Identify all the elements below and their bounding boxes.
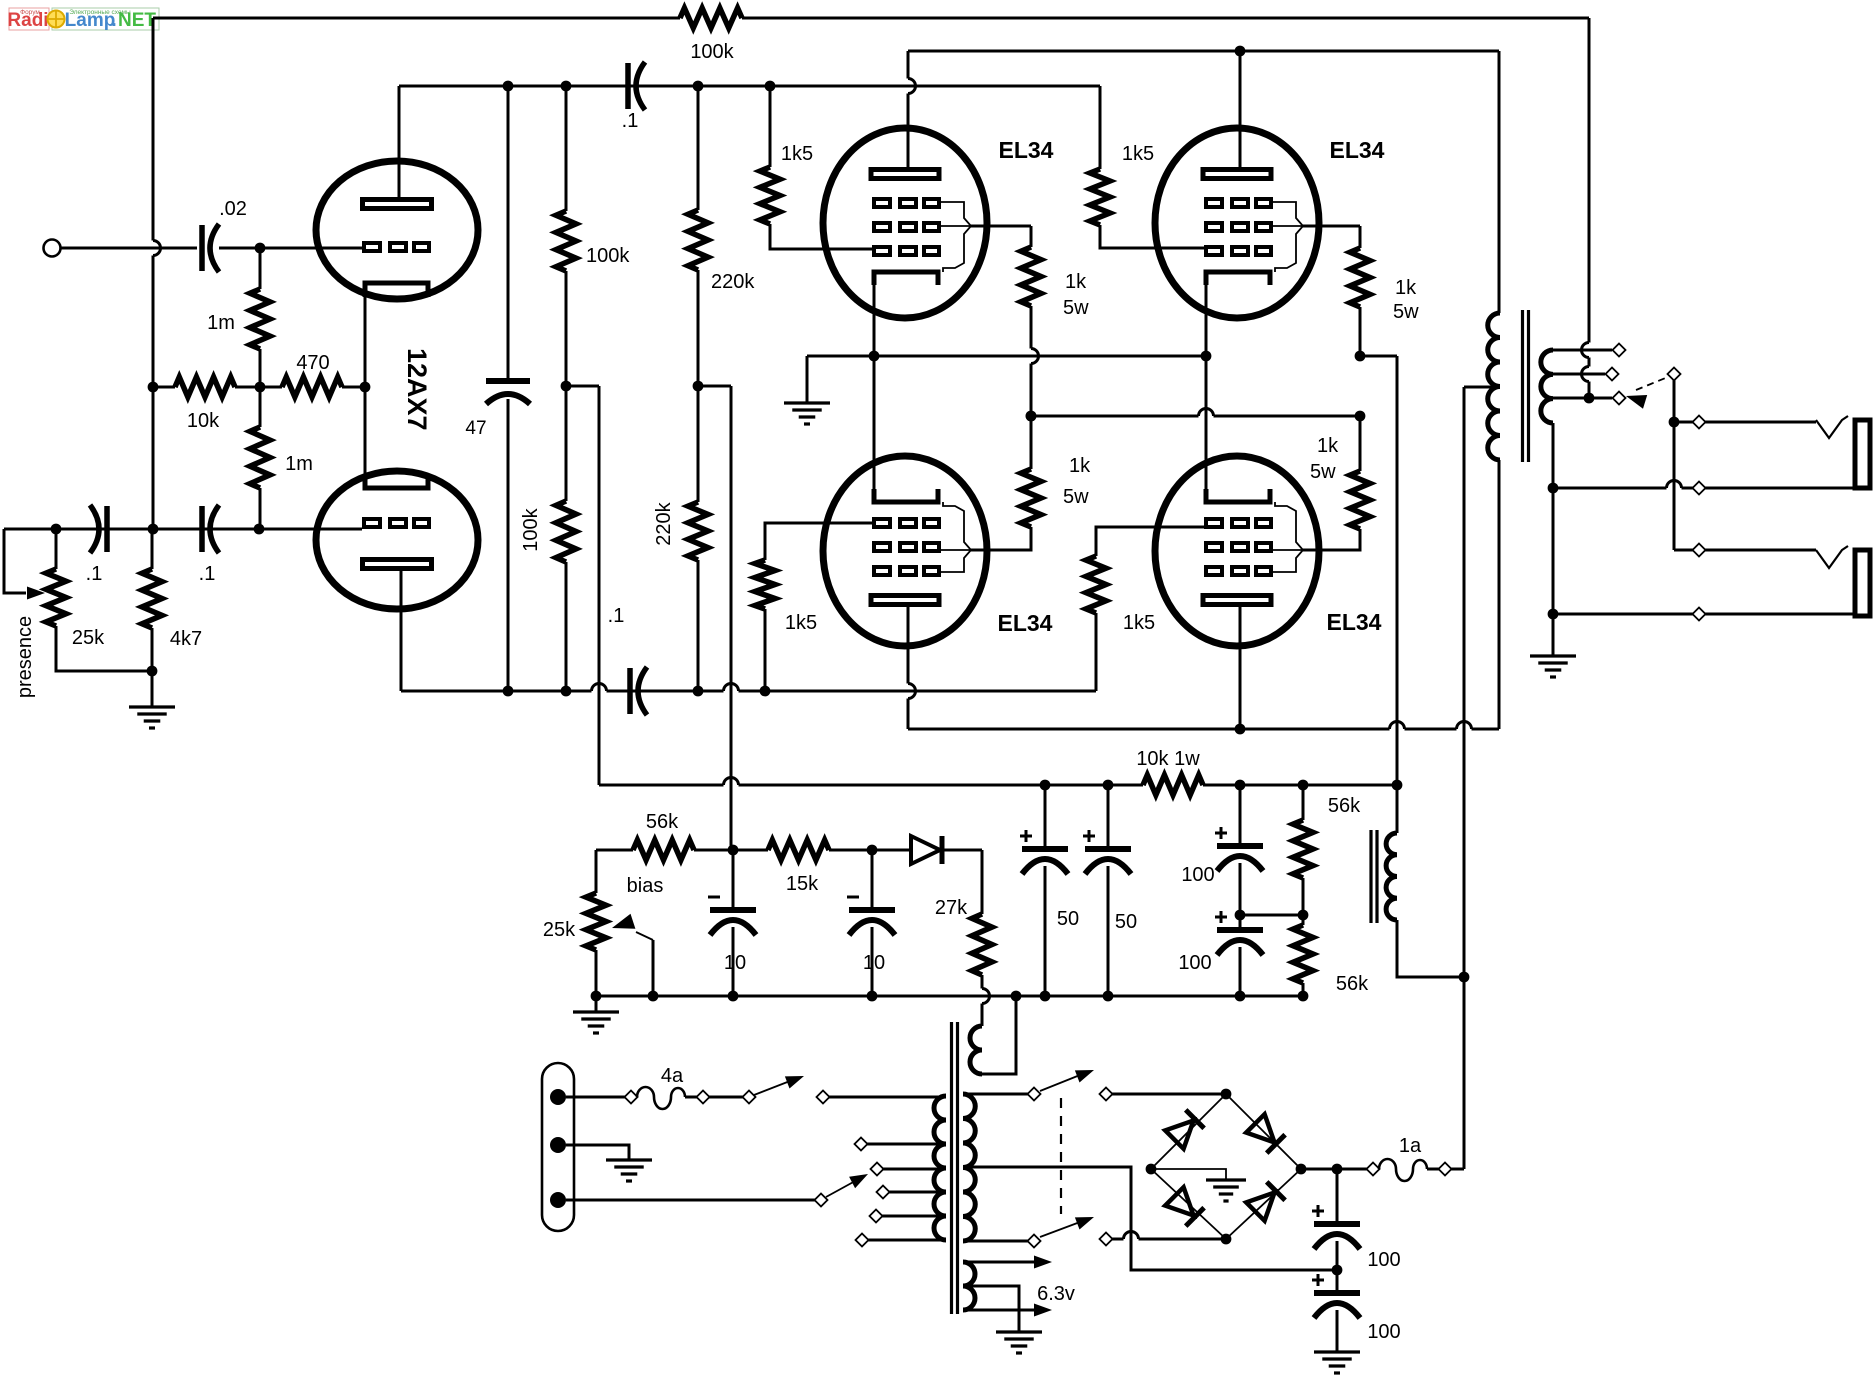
svg-text:27k: 27k xyxy=(935,897,968,919)
svg-text:10k 1w: 10k 1w xyxy=(1136,748,1200,770)
choke core xyxy=(1371,830,1377,923)
svg-text:EL34: EL34 xyxy=(999,137,1054,163)
svg-text:100k: 100k xyxy=(520,507,542,551)
wire OT center tap xyxy=(1464,386,1500,389)
12AX7 upper plate xyxy=(363,89,432,209)
speaker jack J2 xyxy=(1816,546,1870,616)
svg-text:Radi: Radi xyxy=(7,10,48,31)
wire OT tap3 xyxy=(1553,392,1626,405)
wire V1 plate to B+ rail xyxy=(908,51,916,170)
switch mains xyxy=(709,1076,946,1104)
fuse 1a xyxy=(1379,1135,1464,1181)
resistor 4k7 xyxy=(142,529,202,676)
wire V1 cathode to gnd rail xyxy=(869,285,880,490)
capacitor 47 xyxy=(465,86,530,691)
wire PI lower line y=691 xyxy=(401,684,1096,697)
bridge rectifier frame xyxy=(1146,1089,1307,1245)
12AX7 lower grid xyxy=(364,519,429,527)
wire bias winding bottom xyxy=(982,996,1016,1074)
fuse 4a xyxy=(637,1065,710,1109)
resistor 100k upper xyxy=(556,86,630,391)
resistor 56k lower xyxy=(1293,915,1369,996)
resistor 1k 5w V3 xyxy=(971,411,1091,550)
tube EL34 V2 xyxy=(1155,128,1319,318)
wire mains neutral xyxy=(566,1174,868,1207)
svg-text:50: 50 xyxy=(1115,911,1137,933)
resistor 100k lower (rotated label) xyxy=(520,386,576,691)
wire supply rail y=785 xyxy=(599,778,1143,791)
resistor 15k xyxy=(733,840,877,895)
wire B+ rail y=51 xyxy=(908,46,1499,57)
ground mains earth xyxy=(606,1160,652,1181)
wire HV center tap xyxy=(963,1167,1337,1270)
wire V4 plate down xyxy=(1239,604,1242,729)
wire bias gnd line y=996 xyxy=(596,991,1308,1002)
transformer PT bias winding xyxy=(970,1026,982,1074)
svg-text:100: 100 xyxy=(1181,864,1214,886)
speaker selector arrow xyxy=(1626,368,1681,409)
svg-text:4a: 4a xyxy=(661,1065,684,1087)
transformer OT core xyxy=(1523,310,1529,462)
choke winding xyxy=(1386,785,1462,977)
svg-text:100k: 100k xyxy=(586,245,630,267)
12AX7 upper grid xyxy=(364,243,429,251)
wire top NFB rail y=18 xyxy=(153,17,1589,20)
svg-text:6.3v: 6.3v xyxy=(1037,1283,1075,1305)
ground OT secondary xyxy=(1530,656,1576,677)
wire mains hot xyxy=(566,1091,638,1104)
speaker jack J1 xyxy=(1816,416,1870,488)
svg-text:5w: 5w xyxy=(1063,486,1089,508)
svg-text:47: 47 xyxy=(465,418,486,439)
wire 100/56k link xyxy=(1240,910,1308,921)
wire screen node to choke drop xyxy=(1360,355,1397,358)
svg-text:220k: 220k xyxy=(653,501,675,545)
transformer PT heater winding xyxy=(963,1262,975,1310)
svg-text:1k5: 1k5 xyxy=(1123,612,1155,634)
PT primary taps xyxy=(855,1138,947,1247)
wire cathode ground rail y=356 xyxy=(807,351,1211,362)
resistor 220k lower (rotated label) xyxy=(653,386,708,691)
svg-text:1k5: 1k5 xyxy=(785,612,817,634)
resistor 1k5 EL34-4 xyxy=(1086,527,1204,691)
wire OT tap1 xyxy=(1553,344,1626,357)
wire B+ main drop x=1464 xyxy=(1459,387,1470,1169)
bridge diode D2 xyxy=(1246,1114,1285,1153)
svg-text:NET: NET xyxy=(118,10,156,31)
svg-text:56k: 56k xyxy=(646,811,679,833)
resistor 1k 5w V2 xyxy=(1350,226,1419,361)
resistor 1k 5w V1 xyxy=(1021,226,1089,421)
wire jack2 sleeve xyxy=(1553,608,1855,621)
capacitor .1 presence xyxy=(86,505,107,585)
capacitor 10uF B xyxy=(847,850,895,996)
RadioLamp.NET logo xyxy=(7,8,159,31)
bridge internal ground xyxy=(1151,1169,1246,1201)
svg-text:1k: 1k xyxy=(1069,455,1091,477)
resistor 1k5 EL34-3 xyxy=(755,523,872,691)
svg-text:1k: 1k xyxy=(1317,435,1339,457)
potentiometer 25k bias xyxy=(543,850,663,996)
resistor 1k5 EL34-1 xyxy=(760,86,872,249)
svg-text:.02: .02 xyxy=(219,198,247,220)
resistor 56k upper xyxy=(1293,785,1361,915)
wire V3 plate down xyxy=(908,604,916,729)
wire bridge out xyxy=(1301,1163,1380,1176)
wire bias rail y=850 xyxy=(596,849,633,852)
wire OT tap2 xyxy=(1553,368,1619,381)
svg-text:1k: 1k xyxy=(1065,271,1087,293)
ground presence xyxy=(129,671,175,728)
svg-text:Lamp: Lamp xyxy=(65,10,116,31)
resistor 220k upper xyxy=(688,86,755,391)
transformer PT HV secondary xyxy=(963,1094,975,1241)
svg-text:bias: bias xyxy=(627,875,664,897)
capacitor 100uF D xyxy=(1312,1270,1401,1352)
wire V1 screen to R xyxy=(971,225,1031,228)
label EL34 V1 xyxy=(999,137,1054,163)
svg-text:.1: .1 xyxy=(86,563,103,585)
bridge diode D1 xyxy=(1165,1110,1204,1149)
resistor 56k bias xyxy=(633,811,738,860)
wire B+ drop for PI x=599 xyxy=(566,386,599,785)
12AX7 upper cathode xyxy=(365,283,428,486)
wire mains earth xyxy=(566,1145,629,1160)
potentiometer 25k presence xyxy=(46,529,152,671)
wire NFB left drop x=153 xyxy=(153,18,161,529)
input jack terminal xyxy=(44,240,61,257)
svg-text:5w: 5w xyxy=(1393,301,1419,323)
wire jack1 sleeve xyxy=(1553,481,1855,495)
capacitor 100uF B xyxy=(1178,911,1263,996)
capacitor .02 xyxy=(202,198,247,272)
capacitor .1 lower coupling xyxy=(608,605,647,715)
svg-text:1k5: 1k5 xyxy=(781,143,813,165)
svg-text:presence: presence xyxy=(14,616,36,698)
svg-text:EL34: EL34 xyxy=(1330,137,1385,163)
svg-text:EL34: EL34 xyxy=(998,610,1053,636)
switch HV bottom xyxy=(963,1217,1226,1248)
ground EL34 cathodes xyxy=(784,356,830,424)
wire bias drop x=731 xyxy=(698,386,731,850)
svg-text:100k: 100k xyxy=(690,41,734,63)
svg-text:220k: 220k xyxy=(711,271,755,293)
svg-text:5w: 5w xyxy=(1063,297,1089,319)
svg-text:10k: 10k xyxy=(187,410,220,432)
svg-text:1k5: 1k5 xyxy=(1122,143,1154,165)
wire PI upper line y=86 xyxy=(399,81,1100,92)
label EL34 V4 xyxy=(1327,609,1382,635)
wire V2 plate to B+ rail xyxy=(1239,51,1242,167)
tube 12AX7 upper triode envelope xyxy=(316,161,478,299)
capacitor 100uF C xyxy=(1312,1169,1401,1275)
transformer PT primary xyxy=(934,1096,946,1240)
resistor 100k NFB xyxy=(680,8,742,63)
svg-text:.: . xyxy=(111,10,116,31)
label EL34 V2 xyxy=(1330,137,1385,163)
switch gang dashed link xyxy=(1060,1098,1062,1214)
svg-text:.1: .1 xyxy=(199,563,216,585)
svg-text:1a: 1a xyxy=(1399,1135,1422,1157)
resistor 1k5 EL34-2 xyxy=(1090,143,1204,248)
svg-text:5w: 5w xyxy=(1310,461,1336,483)
label 12AX7 xyxy=(402,348,432,431)
wire input to C1 xyxy=(61,247,198,250)
svg-text:100: 100 xyxy=(1367,1321,1400,1343)
transformer PT core xyxy=(952,1022,958,1314)
wire 27k to bias winding xyxy=(982,975,990,1026)
wire V2 screen to R xyxy=(1303,225,1360,228)
12AX7 lower cathode xyxy=(365,474,428,488)
svg-text:.1: .1 xyxy=(608,605,625,627)
resistor 1m lower xyxy=(250,387,313,529)
svg-text:100: 100 xyxy=(1178,952,1211,974)
wire to OT primary bottom xyxy=(1498,460,1501,729)
svg-text:10: 10 xyxy=(724,952,746,974)
wire lower plate rail y=729 xyxy=(908,722,1499,735)
svg-text:25k: 25k xyxy=(72,627,105,649)
resistor 470 xyxy=(255,352,371,397)
svg-text:1k: 1k xyxy=(1395,277,1417,299)
ground bias xyxy=(573,991,619,1033)
capacitor .1 NFB xyxy=(199,505,219,585)
label EL34 V3 xyxy=(998,610,1053,636)
wire heater top xyxy=(963,1256,1052,1269)
resistor 1m upper xyxy=(207,248,270,387)
svg-text:.1: .1 xyxy=(622,110,639,132)
svg-text:470: 470 xyxy=(296,352,329,374)
12AX7 lower plate xyxy=(363,560,432,692)
svg-text:56k: 56k xyxy=(1328,795,1361,817)
svg-text:25k: 25k xyxy=(543,919,576,941)
svg-text:1m: 1m xyxy=(285,453,313,475)
svg-text:12AX7: 12AX7 xyxy=(402,348,432,431)
ground main filter xyxy=(1314,1352,1360,1373)
wire selector common xyxy=(1669,380,1680,550)
svg-text:56k: 56k xyxy=(1336,973,1369,995)
resistor 27k xyxy=(935,850,992,975)
svg-text:100: 100 xyxy=(1367,1249,1400,1271)
wire B+ to OT primary top xyxy=(1498,51,1501,313)
svg-text:50: 50 xyxy=(1057,908,1079,930)
bridge diode D4 xyxy=(1246,1182,1285,1221)
svg-text:EL34: EL34 xyxy=(1327,609,1382,635)
capacitor 50uF A xyxy=(1020,785,1079,996)
capacitor .1 upper coupling xyxy=(622,62,645,132)
wire heater bottom xyxy=(963,1304,1052,1317)
bias wiper arrow xyxy=(612,914,653,996)
presence wiper arrow xyxy=(4,529,45,600)
svg-text:1m: 1m xyxy=(207,312,235,334)
wire heater mid to gnd xyxy=(963,1286,1042,1353)
label 6.3v xyxy=(1037,1283,1075,1305)
capacitor 10uF A xyxy=(708,850,756,996)
wire jack1 tip xyxy=(1674,416,1816,429)
wire choke drop x=1397 xyxy=(1392,356,1403,790)
wire screen rail y=416 xyxy=(1031,409,1365,422)
resistor 10k xyxy=(148,377,260,432)
label presence xyxy=(14,616,36,698)
tube EL34 V1 xyxy=(823,128,987,318)
wire jack2 tip xyxy=(1674,544,1816,557)
wire NFB right drop x=1589 xyxy=(1582,18,1589,398)
switch HV top xyxy=(963,1070,1226,1101)
capacitor 50uF B xyxy=(1083,785,1137,996)
wire V2/V4 cathode line xyxy=(1205,285,1208,500)
svg-text:10: 10 xyxy=(863,952,885,974)
svg-text:4k7: 4k7 xyxy=(170,628,202,650)
wire presence line y=529 xyxy=(4,524,362,535)
transformer OT primary xyxy=(1488,313,1500,460)
transformer OT secondary xyxy=(1541,350,1553,423)
wire C1 to grid node xyxy=(219,243,362,254)
wire V3 cathode up xyxy=(873,490,876,500)
bridge diode D3 xyxy=(1165,1187,1204,1226)
mains connector xyxy=(542,1063,574,1231)
diode bias xyxy=(872,836,982,864)
tube EL34 V4 xyxy=(1155,456,1319,646)
capacitor 100uF A xyxy=(1181,785,1263,920)
wire OT secondary bottom xyxy=(1548,423,1559,656)
tube EL34 V3 xyxy=(823,456,987,646)
wire 1k5 feed EL34-2 xyxy=(1099,86,1102,169)
tube 12AX7 lower triode envelope xyxy=(316,471,478,609)
resistor 1k 5w V4 xyxy=(1303,416,1370,550)
svg-text:15k: 15k xyxy=(786,873,819,895)
resistor 10k 1w xyxy=(1136,748,1397,795)
